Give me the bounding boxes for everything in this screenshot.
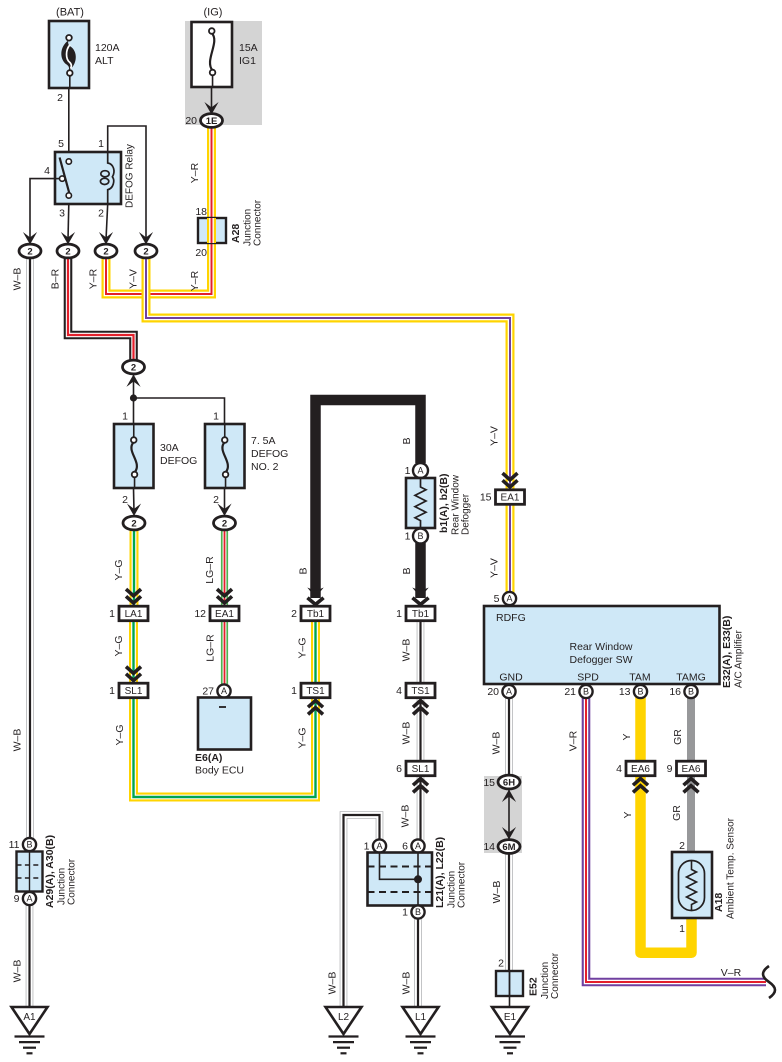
svg-text:13: 13 [619, 686, 631, 698]
svg-text:B: B [401, 437, 413, 444]
svg-text:1: 1 [109, 685, 115, 697]
connector 2 (W-B) [19, 232, 41, 258]
svg-text:5: 5 [494, 593, 500, 605]
svg-text:(IG): (IG) [204, 7, 223, 19]
svg-text:NO. 2: NO. 2 [251, 461, 279, 473]
wire W-B 6M to E52 junction connector [505, 853, 513, 971]
ECU E6(A) Body ECU [195, 684, 251, 776]
svg-text:A18: A18 [713, 893, 725, 912]
svg-text:15A: 15A [239, 42, 258, 54]
svg-text:1: 1 [402, 907, 408, 919]
svg-text:TAMG: TAMG [676, 672, 706, 684]
svg-text:TS1: TS1 [306, 686, 325, 697]
connector EA1 pin 12 [194, 589, 239, 621]
wire colour labels (rotated) [12, 162, 685, 994]
svg-text:6: 6 [396, 763, 402, 775]
svg-text:V–R: V–R [721, 967, 742, 979]
svg-text:Connector: Connector [457, 861, 468, 908]
connector 2 (Y-R) [95, 232, 117, 258]
connector Tb1 pin 2 [291, 588, 330, 621]
svg-text:A: A [506, 687, 512, 697]
svg-text:2: 2 [57, 92, 63, 104]
svg-text:B: B [401, 567, 413, 574]
svg-text:Connector: Connector [253, 199, 264, 246]
svg-text:18: 18 [195, 206, 207, 218]
svg-text:21: 21 [564, 686, 576, 698]
svg-text:b1(A), b2(B): b1(A), b2(B) [438, 474, 450, 534]
svg-text:E52: E52 [528, 977, 540, 996]
svg-text:E1: E1 [504, 1012, 517, 1023]
wire LG-R EA1 to body ECU pin 27 [221, 620, 228, 684]
svg-text:6M: 6M [502, 842, 515, 853]
svg-text:A28: A28 [230, 224, 242, 243]
svg-text:W–B: W–B [401, 972, 413, 995]
svg-text:SPD: SPD [577, 672, 599, 684]
svg-text:9: 9 [667, 763, 673, 775]
svg-text:Y–G: Y–G [114, 724, 126, 745]
wire W-B Tb1 to TS1 col4 [417, 620, 425, 684]
svg-text:5: 5 [58, 138, 64, 150]
svg-text:B: B [417, 531, 423, 541]
svg-text:Y–G: Y–G [297, 727, 309, 748]
fuse 120A ALT [49, 7, 120, 105]
svg-text:Y: Y [622, 811, 634, 818]
connector SL1 pin 6 [396, 761, 435, 792]
svg-text:6: 6 [402, 841, 408, 853]
svg-text:B: B [298, 567, 310, 574]
wire relay pin 4 to W-B connector [30, 179, 55, 240]
svg-text:120A: 120A [95, 42, 120, 54]
wire B thick defogger pin B to Tb1 [415, 543, 426, 598]
harness break on V-R wire [763, 966, 775, 998]
svg-text:(BAT): (BAT) [56, 7, 84, 19]
svg-text:30A: 30A [160, 442, 179, 454]
svg-text:2: 2 [98, 208, 104, 220]
svg-text:W–B: W–B [401, 722, 413, 745]
wire B-R from relay pin 3 to fuse connector [68, 258, 134, 363]
wire Y from TAM to EA6 connector [635, 697, 646, 762]
svg-text:Y–V: Y–V [489, 558, 501, 578]
connector EA6 pin 9 [667, 761, 706, 792]
svg-text:2: 2 [65, 246, 70, 257]
svg-text:RDFG: RDFG [496, 612, 526, 624]
wire Y-V from relay to EA1 and defogger switch [146, 258, 510, 607]
svg-text:SL1: SL1 [412, 764, 430, 775]
svg-text:2: 2 [131, 518, 136, 529]
svg-text:EA6: EA6 [682, 764, 701, 775]
connector 2 above fuse branch [123, 360, 145, 387]
svg-text:2: 2 [679, 840, 685, 852]
wire branch node to DEFOG fuse [133, 398, 135, 424]
svg-text:27: 27 [202, 686, 214, 698]
svg-text:A29(A), A30(B): A29(A), A30(B) [44, 835, 56, 908]
svg-text:2: 2 [103, 246, 108, 257]
svg-text:A: A [221, 686, 227, 696]
svg-text:W–B: W–B [400, 805, 412, 828]
resistor b1(A),b2(B) Rear Window Defogger [405, 463, 472, 544]
svg-text:Defogger: Defogger [461, 493, 472, 535]
svg-text:SL1: SL1 [125, 686, 143, 697]
svg-text:DEFOG: DEFOG [160, 455, 197, 467]
wire Y-G TS1 to Tb1 [311, 620, 320, 684]
connector 2 (Y-V) [135, 232, 157, 258]
ground L2 [326, 1007, 362, 1053]
svg-text:B: B [583, 687, 589, 697]
wire Y-G SL1 loop to TS1 [134, 697, 316, 797]
svg-text:2: 2 [291, 608, 297, 620]
connector TS1 pin 4 [396, 683, 435, 714]
wire GR from TAMG to EA6 connector [687, 697, 695, 762]
svg-text:EA1: EA1 [215, 609, 234, 620]
svg-text:1: 1 [291, 685, 297, 697]
junction connector A29(A),A30(B) [9, 835, 78, 908]
wire fuse DEFOG NO.2 to connector [224, 488, 226, 512]
wire W-B from junction connector A29 to ground A1 [26, 905, 34, 1007]
svg-text:Y–G: Y–G [113, 635, 125, 656]
svg-text:Y–G: Y–G [113, 559, 125, 580]
connector 2 below fuse DEFOG [123, 504, 145, 530]
wire LG-R fuse DEFOG NO.2 to EA1 [221, 530, 228, 606]
svg-text:A: A [506, 594, 512, 604]
svg-text:Y–G: Y–G [297, 637, 309, 658]
svg-text:E6(A): E6(A) [195, 752, 222, 764]
svg-text:W–B: W–B [401, 639, 413, 662]
svg-text:B: B [688, 687, 694, 697]
wire relay pin 2 to Y-R connector [106, 204, 108, 240]
connector TS1 pin 1 [291, 683, 330, 714]
svg-text:1: 1 [405, 465, 411, 477]
svg-text:Tb1: Tb1 [412, 609, 430, 620]
A/C amplifier E32(A),E33(B) Rear Window Defogger SW [484, 592, 745, 698]
svg-text:L2: L2 [338, 1012, 350, 1023]
svg-text:A: A [415, 841, 421, 851]
junction connector L21(A),L22(B) [364, 837, 468, 919]
svg-text:15: 15 [483, 777, 495, 789]
wire relay pin 3 to B-R connector [67, 204, 70, 240]
wire Y-G LA1 to SL1 [129, 620, 138, 683]
wire BAT fuse to relay pin 5 [68, 88, 70, 160]
svg-text:4: 4 [616, 763, 622, 775]
svg-text:W–B: W–B [491, 732, 503, 755]
wire W-B from relay pin 4 to junction connector A29 [26, 258, 34, 839]
connector EA1 pin 15 [480, 473, 525, 504]
wire relay pin 1 to Y-V connector [108, 126, 146, 240]
svg-text:Y–R: Y–R [88, 268, 100, 289]
fuse 15A IG1 [192, 7, 258, 88]
svg-text:Defogger SW: Defogger SW [569, 654, 632, 666]
wire branch node to DEFOG NO.2 fuse [134, 398, 225, 424]
connector SL1 pin 1 [109, 667, 148, 698]
wire W-B E52 to ground E1 [509, 996, 511, 1007]
wire W-B SL1 to junction connector L21 [417, 776, 425, 840]
svg-text:TAM: TAM [629, 672, 650, 684]
gray panel behind IG fuse [185, 21, 262, 125]
wire Y from EA6 to ambient temp sensor pin 1 [641, 776, 692, 953]
svg-text:Connector: Connector [550, 952, 561, 999]
svg-text:DEFOG Relay: DEFOG Relay [125, 144, 136, 208]
svg-text:Y–R: Y–R [189, 270, 201, 291]
svg-text:B–R: B–R [50, 268, 62, 289]
svg-text:A/C Amplifier: A/C Amplifier [734, 630, 745, 688]
connector 2 (B-R) [57, 232, 79, 258]
svg-text:A: A [26, 894, 32, 904]
wire connector 2 to fuse branch node [133, 374, 135, 398]
svg-text:Tb1: Tb1 [307, 609, 325, 620]
wire B thick from Tb1 over to rear window defogger [316, 400, 421, 598]
svg-text:DEFOG: DEFOG [251, 448, 288, 460]
svg-text:1: 1 [122, 411, 128, 423]
connector 6H pin 15 [483, 775, 520, 802]
svg-text:W–B: W–B [12, 268, 24, 291]
junction node dot [130, 394, 137, 401]
wire W-B TS1 to SL1 col4 [417, 698, 425, 762]
svg-text:16: 16 [669, 686, 681, 698]
svg-text:LA1: LA1 [125, 609, 143, 620]
svg-text:Rear Window: Rear Window [569, 641, 632, 653]
svg-text:11: 11 [9, 839, 20, 851]
svg-text:IG1: IG1 [239, 55, 256, 67]
svg-text:2: 2 [27, 246, 32, 257]
svg-text:B: B [415, 907, 421, 917]
svg-text:2: 2 [143, 246, 148, 257]
svg-text:1: 1 [98, 138, 104, 150]
svg-text:LG–R: LG–R [205, 634, 217, 662]
svg-text:20: 20 [185, 115, 197, 127]
svg-text:Y–V: Y–V [489, 426, 501, 446]
svg-text:2: 2 [131, 362, 136, 373]
svg-text:1: 1 [405, 531, 411, 543]
svg-text:1: 1 [364, 841, 370, 853]
thermistor A18 Ambient Temp. Sensor [672, 817, 737, 935]
svg-text:6H: 6H [503, 777, 515, 788]
ground E1 [492, 1007, 528, 1053]
svg-text:1: 1 [213, 411, 219, 423]
svg-text:Y–R: Y–R [189, 162, 201, 183]
connector LA1 pin 1 [109, 589, 148, 621]
svg-text:20: 20 [195, 247, 207, 259]
svg-text:9: 9 [14, 893, 20, 905]
svg-text:2: 2 [122, 494, 128, 506]
svg-text:4: 4 [44, 165, 50, 177]
svg-text:A1: A1 [23, 1012, 36, 1023]
junction connector A28 [195, 199, 263, 259]
svg-text:W–B: W–B [491, 881, 503, 904]
wire Y-R from A28 joining relay pin 2 wire [106, 243, 212, 294]
wire W-B branch from L21 pin 1A to ground L2 [344, 815, 380, 1007]
svg-text:ALT: ALT [95, 55, 114, 67]
svg-text:Y: Y [621, 733, 633, 740]
svg-text:GND: GND [499, 672, 523, 684]
svg-text:1: 1 [109, 608, 115, 620]
svg-text:4: 4 [396, 685, 402, 697]
svg-text:7. 5A: 7. 5A [251, 435, 276, 447]
svg-text:L1: L1 [415, 1012, 427, 1023]
svg-text:2: 2 [498, 958, 504, 970]
svg-text:E32(A), E33(B): E32(A), E33(B) [721, 616, 733, 688]
svg-text:2: 2 [222, 518, 227, 529]
connector Tb1 pin 1 [396, 588, 435, 621]
svg-text:GR: GR [672, 729, 684, 745]
ground A1 [12, 1007, 48, 1053]
fuse 30A DEFOG [114, 411, 197, 507]
wire V-R from SPD to harness break [586, 697, 766, 982]
wire W-B GND to 6H connector [505, 697, 513, 776]
connector 2 below fuse DEFOG NO.2 [214, 504, 236, 530]
svg-text:3: 3 [59, 208, 65, 220]
ground L1 [403, 1007, 439, 1053]
svg-text:W–B: W–B [12, 960, 24, 983]
svg-text:14: 14 [483, 841, 495, 853]
svg-text:A: A [417, 466, 423, 476]
svg-text:LG–R: LG–R [204, 556, 216, 584]
svg-text:12: 12 [194, 608, 206, 620]
svg-text:Connector: Connector [67, 858, 78, 905]
svg-text:Body ECU: Body ECU [195, 765, 244, 777]
svg-text:L21(A), L22(B): L21(A), L22(B) [434, 837, 446, 908]
svg-text:Y–V: Y–V [128, 269, 140, 289]
svg-text:20: 20 [487, 686, 499, 698]
fuse 7.5A DEFOG NO.2 [205, 411, 288, 507]
svg-text:B: B [637, 687, 643, 697]
junction connector E52 [496, 952, 561, 999]
wire GR from EA6 to ambient temp sensor pin 2 [687, 776, 695, 852]
svg-text:B: B [26, 840, 32, 850]
svg-text:EA6: EA6 [631, 764, 650, 775]
wire Y-G fuse DEFOG to LA1 [130, 530, 139, 606]
wire W-B between 6H and 6M connectors [508, 789, 510, 840]
relay DEFOG Relay [44, 138, 135, 220]
svg-text:Ambient Temp. Sensor: Ambient Temp. Sensor [726, 817, 737, 919]
svg-text:1: 1 [396, 608, 402, 620]
connector EA6 pin 4 [616, 761, 655, 792]
svg-text:1E: 1E [206, 116, 218, 127]
svg-text:1: 1 [679, 923, 685, 935]
wire IG fuse to connector 1E [211, 87, 213, 112]
svg-text:V–R: V–R [568, 730, 580, 751]
svg-text:A: A [376, 841, 382, 851]
svg-text:W–B: W–B [12, 729, 24, 752]
svg-text:EA1: EA1 [501, 493, 520, 504]
svg-text:W–B: W–B [327, 972, 339, 995]
svg-text:GR: GR [671, 805, 683, 821]
connector 1E pin 20 [185, 102, 222, 127]
svg-text:TS1: TS1 [411, 686, 430, 697]
connector 6M pin 14 [483, 827, 520, 853]
wire Y-R from 1E to A28 [207, 127, 216, 218]
wire fuse DEFOG to connector [133, 488, 136, 512]
gray panel behind 6H/6M connectors [484, 776, 522, 853]
wire W-B from L21 pin 1B to ground L1 [414, 918, 422, 1007]
svg-text:15: 15 [480, 492, 492, 504]
